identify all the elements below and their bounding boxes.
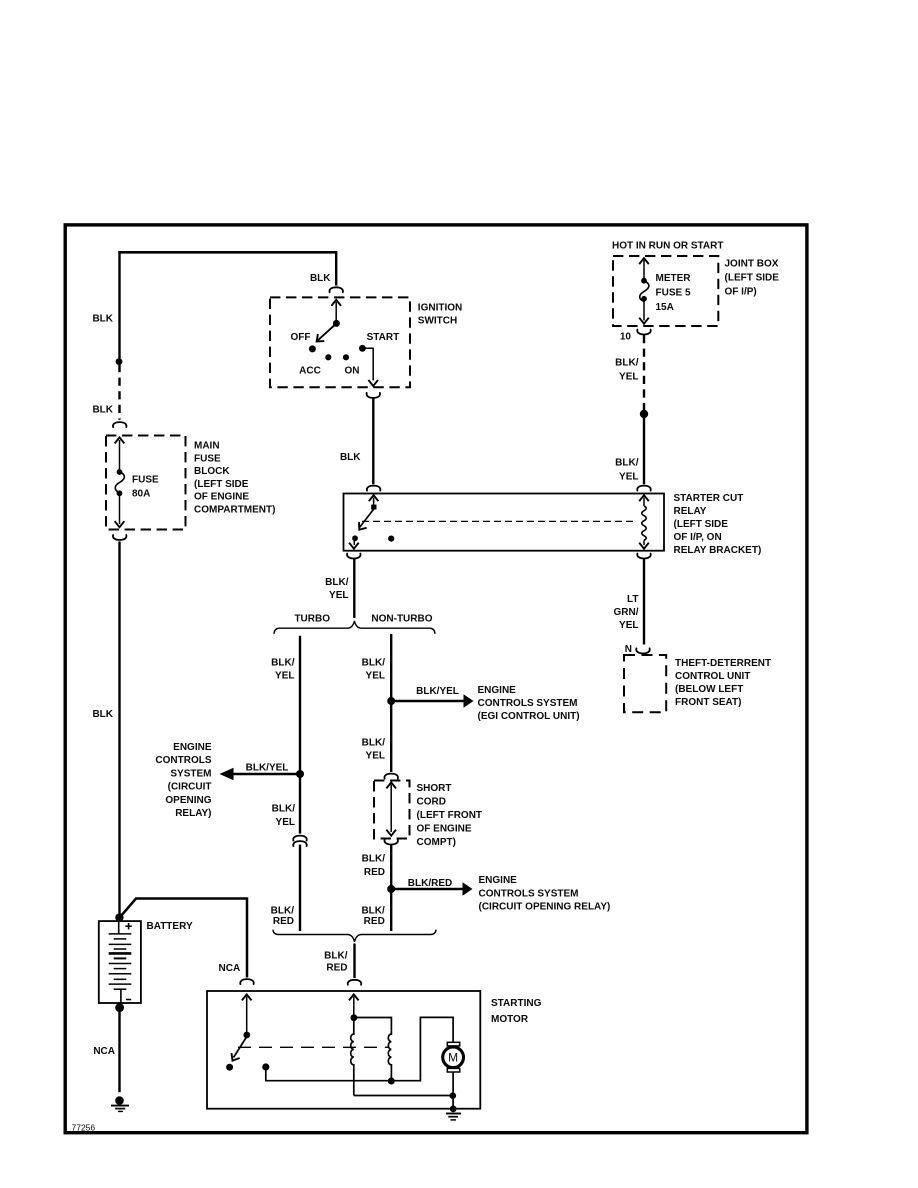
main fuse block box	[106, 436, 186, 530]
joint box	[613, 256, 718, 326]
svg-text:NCA: NCA	[219, 963, 241, 974]
connector below ignition switch	[367, 393, 380, 398]
svg-text:15A: 15A	[656, 302, 674, 313]
svg-text:77256: 77256	[72, 1123, 96, 1133]
label BLK (left wire lower)	[92, 709, 113, 720]
svg-text:ACC: ACC	[299, 366, 321, 377]
svg-text:(CIRCUIT: (CIRCUIT	[168, 782, 212, 793]
svg-text:BLK/: BLK/	[271, 906, 295, 917]
solenoid hold coil	[351, 1018, 354, 1096]
wire: motor to ground	[452, 1072, 454, 1106]
contact START	[359, 345, 366, 352]
label SHORT CORD	[417, 783, 483, 848]
svg-text:SYSTEM: SYSTEM	[170, 768, 211, 779]
svg-text:NON-TURBO: NON-TURBO	[371, 614, 432, 625]
svg-text:(LEFT SIDE: (LEFT SIDE	[725, 273, 780, 284]
theft-deterrent control unit box	[624, 655, 666, 712]
solenoid switch contact 2	[262, 1063, 269, 1070]
battery box	[99, 921, 141, 1003]
pin N label	[625, 644, 632, 655]
svg-text:(LEFT SIDE: (LEFT SIDE	[194, 479, 249, 490]
svg-text:HOT IN RUN OR START: HOT IN RUN OR START	[612, 240, 723, 251]
wire: BLK/RED to starting motor	[353, 944, 355, 979]
connector above main fuse block	[113, 422, 126, 427]
svg-text:LT: LT	[627, 594, 638, 605]
label BLK/RED (below short cord)	[362, 854, 386, 879]
wire: START contact down to relay	[362, 348, 378, 386]
label OFF	[291, 332, 311, 343]
connector above relay left pin	[367, 486, 380, 491]
svg-text:COMPARTMENT): COMPARTMENT)	[194, 505, 275, 516]
svg-text:(CIRCUIT OPENING RELAY): (CIRCUIT OPENING RELAY)	[479, 902, 611, 913]
svg-text:CONTROLS: CONTROLS	[155, 755, 211, 766]
svg-text:RED: RED	[364, 916, 385, 927]
wire: battery positive to top horizontal BLK feed	[118, 251, 337, 915]
svg-text:RELAY: RELAY	[674, 506, 707, 517]
svg-text:RELAY): RELAY)	[175, 808, 211, 819]
svg-text:CONTROL UNIT: CONTROL UNIT	[675, 671, 750, 682]
node: splice to circuit opening relay (BLK/RED)	[387, 885, 395, 893]
svg-text:YEL: YEL	[619, 620, 638, 631]
connector below relay right pin	[637, 554, 650, 559]
svg-text:BLK/: BLK/	[362, 854, 386, 865]
label ON	[345, 366, 360, 377]
relay coil pin	[639, 495, 649, 549]
wire: non-turbo branch to short cord	[390, 701, 392, 772]
svg-text:80A: 80A	[132, 489, 150, 500]
svg-text:YEL: YEL	[276, 817, 295, 828]
wire: relay output BLK/YEL down to split	[353, 559, 355, 618]
label BLK/RED (arrow)	[408, 878, 452, 889]
svg-text:OF I/P): OF I/P)	[725, 287, 757, 298]
svg-text:CORD: CORD	[417, 797, 446, 808]
svg-text:OF I/P, ON: OF I/P, ON	[674, 532, 722, 543]
node: battery positive junction	[115, 913, 123, 921]
svg-text:STARTER CUT: STARTER CUT	[674, 493, 744, 504]
label THEFT-DETERRENT CONTROL UNIT	[675, 658, 771, 708]
ignition switch blade (OFF position)	[309, 320, 340, 353]
motor M1	[443, 1042, 464, 1072]
svg-text:GRN/: GRN/	[614, 607, 639, 618]
label ENGINE CONTROLS SYSTEM (CIRCUIT OPENING RELAY) right	[479, 875, 611, 913]
node: splice to circuit opening relay feed	[296, 770, 304, 778]
connector at theft-deterrent unit	[636, 648, 649, 653]
svg-text:YEL: YEL	[366, 751, 385, 762]
label IGNITION SWITCH	[418, 302, 462, 326]
svg-text:(LEFT SIDE: (LEFT SIDE	[674, 519, 729, 530]
label START	[367, 332, 400, 343]
wire: dashed BLK/YEL from joint box	[643, 335, 645, 411]
svg-text:CONTROLS SYSTEM: CONTROLS SYSTEM	[478, 698, 578, 709]
label NCA (battery ground)	[93, 1046, 115, 1057]
svg-text:RELAY BRACKET): RELAY BRACKET)	[674, 545, 762, 556]
svg-text:YEL: YEL	[619, 372, 638, 383]
pin 10 label	[620, 332, 632, 343]
connector at starting motor BLK/RED pin	[348, 980, 361, 985]
label NON-TURBO	[371, 614, 432, 625]
ground (starting motor)	[446, 1106, 461, 1120]
solenoid switch pin (NCA)	[242, 994, 252, 1032]
short cord box	[374, 781, 410, 839]
contact ACC	[325, 354, 331, 360]
label BLK above ignition switch	[310, 273, 331, 284]
svg-text:RED: RED	[364, 867, 385, 878]
label BLK/YEL (EGI arrow)	[416, 686, 459, 697]
svg-text:(EGI CONTROL UNIT): (EGI CONTROL UNIT)	[478, 711, 580, 722]
svg-text:RED: RED	[273, 916, 294, 927]
svg-text:BLK/YEL: BLK/YEL	[246, 763, 289, 774]
svg-text:BLOCK: BLOCK	[194, 466, 230, 477]
node: splice on left BLK wire	[116, 358, 123, 365]
label STARTER CUT RELAY	[674, 493, 762, 556]
svg-text:BLK/RED: BLK/RED	[408, 878, 452, 889]
svg-text:COMPT): COMPT)	[417, 837, 456, 848]
label FUSE 80A	[132, 475, 159, 500]
label BLK/RED (non-turbo bottom)	[361, 906, 385, 928]
starter cut relay box	[344, 494, 665, 551]
label BLK/RED (to motor)	[324, 951, 348, 974]
label BLK/YEL (non-turbo upper)	[362, 658, 386, 682]
label BLK/YEL (relay output)	[325, 577, 349, 601]
svg-text:BLK: BLK	[310, 273, 331, 284]
node: splice to EGI control unit feed	[387, 697, 395, 705]
svg-text:NCA: NCA	[93, 1046, 115, 1057]
node: splice on BLK/YEL wire	[640, 410, 648, 418]
label BLK (ignition to relay)	[340, 452, 361, 463]
svg-text:BLK/: BLK/	[325, 577, 349, 588]
wire: NCA battery negative to ground	[118, 1008, 120, 1092]
svg-text:FUSE 5: FUSE 5	[656, 288, 691, 299]
label BLK/YEL (upper right)	[615, 358, 639, 383]
connector above relay right pin	[637, 486, 650, 491]
svg-text:ENGINE: ENGINE	[479, 875, 518, 886]
relay switch armature	[352, 505, 376, 542]
label BLK (left wire upper)	[92, 314, 113, 325]
svg-text:BLK/: BLK/	[362, 738, 386, 749]
svg-text:BLK/: BLK/	[361, 906, 385, 917]
svg-text:N: N	[625, 644, 632, 655]
wire: ignition to starter cut relay BLK	[372, 399, 374, 485]
relay switch pin (top)	[369, 495, 379, 505]
solenoid feed pin (BLK/RED)	[349, 994, 359, 1016]
solenoid pull-in coil	[388, 1030, 391, 1079]
node: battery negative junction	[115, 1003, 124, 1012]
connector above short cord	[384, 774, 397, 779]
svg-text:OPENING: OPENING	[165, 795, 211, 806]
node: motor bottom junction	[450, 1092, 457, 1099]
wire: jumper to pull-in coil	[354, 1018, 392, 1031]
svg-text:THEFT-DETERRENT: THEFT-DETERRENT	[675, 658, 771, 669]
svg-text:JOINT BOX: JOINT BOX	[725, 259, 779, 270]
meter fuse 5 element	[639, 258, 649, 324]
label HOT IN RUN OR START	[612, 240, 723, 251]
wire: BLK/YEL to starter cut relay	[643, 414, 645, 484]
svg-text:ENGINE: ENGINE	[478, 685, 517, 696]
svg-text:(BELOW LEFT: (BELOW LEFT	[675, 684, 743, 695]
label ENGINE CONTROLS SYSTEM (EGI CONTROL UNIT)	[478, 685, 580, 722]
svg-text:BLK/: BLK/	[615, 358, 639, 369]
svg-text:SHORT: SHORT	[417, 783, 452, 794]
node inside relay	[388, 536, 394, 542]
label BATTERY	[147, 921, 193, 932]
svg-text:CONTROLS SYSTEM: CONTROLS SYSTEM	[479, 888, 579, 899]
svg-text:BLK: BLK	[92, 709, 113, 720]
connector below relay left pin	[347, 554, 360, 559]
svg-text:BLK/: BLK/	[362, 658, 386, 669]
svg-text:BLK: BLK	[92, 405, 113, 416]
svg-text:YEL: YEL	[366, 671, 385, 682]
svg-text:BLK: BLK	[340, 452, 361, 463]
svg-text:START: START	[367, 332, 400, 343]
label JOINT BOX	[725, 259, 780, 298]
svg-text:FRONT SEAT): FRONT SEAT)	[675, 697, 741, 708]
svg-text:BLK/: BLK/	[271, 658, 295, 669]
label METER FUSE 5 15A	[656, 273, 692, 313]
wire: LT GRN/YEL relay to theft-deterrent unit	[643, 559, 645, 645]
wire: contact 2 to motor feed	[266, 1017, 453, 1080]
svg-text:YEL: YEL	[329, 590, 348, 601]
fuse 80A element	[115, 437, 125, 527]
wire: NON-TURBO branch upper BLK/YEL	[390, 634, 392, 700]
svg-text:BLK/: BLK/	[324, 951, 348, 962]
battery cell plates	[109, 934, 132, 989]
label BLK/YEL (turbo branch)	[271, 658, 295, 682]
label BLK/YEL (to short cord)	[362, 738, 386, 762]
svg-text:OFF: OFF	[291, 332, 311, 343]
connector at starting motor NCA pin	[240, 979, 253, 984]
svg-text:OF ENGINE: OF ENGINE	[194, 492, 249, 503]
svg-text:FUSE: FUSE	[132, 475, 159, 486]
ignition switch pole arrow	[331, 300, 341, 321]
label LT GRN/YEL	[614, 594, 639, 631]
svg-text:YEL: YEL	[275, 671, 294, 682]
svg-text:YEL: YEL	[619, 472, 638, 483]
svg-text:BLK/: BLK/	[272, 804, 296, 815]
node: solenoid coil feed	[351, 1014, 358, 1021]
label ACC	[299, 366, 321, 377]
svg-text:RED: RED	[326, 963, 347, 974]
relay internal dashed linkage	[362, 520, 635, 522]
label BLK/YEL (to relay)	[615, 458, 639, 483]
label BLK/RED (turbo branch bottom)	[271, 906, 295, 928]
svg-text:M: M	[448, 1051, 458, 1065]
starting motor box	[207, 991, 480, 1109]
label BLK/YEL (turbo branch lower)	[272, 804, 296, 829]
brace: turbo/non-turbo split	[274, 621, 435, 634]
label BLK (left wire at fuse block)	[92, 405, 113, 416]
inline connector on turbo branch	[291, 834, 309, 847]
solenoid switch armature	[226, 1032, 250, 1071]
svg-text:MOTOR: MOTOR	[491, 1014, 529, 1025]
svg-text:BATTERY: BATTERY	[147, 921, 193, 932]
node: pull-in coil to contact wire	[388, 1078, 395, 1085]
label NCA (to motor)	[219, 963, 241, 974]
svg-text:METER: METER	[656, 273, 692, 284]
svg-text:(LEFT FRONT: (LEFT FRONT	[417, 810, 483, 821]
wire: BLK/RED from short cord	[390, 845, 392, 931]
battery minus terminal	[121, 989, 131, 1005]
svg-text:OF ENGINE: OF ENGINE	[417, 824, 472, 835]
dashed linkage solenoid	[238, 1046, 388, 1048]
svg-text:10: 10	[620, 332, 632, 343]
wire: TURBO branch BLK/YEL	[299, 636, 301, 931]
connector below main fuse block	[113, 535, 126, 540]
wire arrow to engine controls system (circuit opening relay)	[220, 768, 301, 781]
brace: branches merge to starting motor	[273, 930, 436, 942]
svg-text:BLK/: BLK/	[615, 458, 639, 469]
short cord element arrows	[386, 782, 396, 835]
connector above ignition switch	[329, 287, 342, 292]
ground (battery)	[111, 1096, 129, 1111]
svg-text:BLK: BLK	[92, 314, 113, 325]
label BLK/YEL (arrow)	[246, 763, 289, 774]
label STARTING MOTOR	[491, 998, 542, 1025]
svg-text:FUSE: FUSE	[194, 453, 221, 464]
svg-text:IGNITION: IGNITION	[418, 302, 462, 313]
svg-text:MAIN: MAIN	[194, 441, 220, 452]
wire arrow to engine controls system (EGI control unit)	[391, 694, 473, 708]
connector below short cord	[384, 840, 397, 845]
wire: NCA battery to starting motor	[121, 899, 248, 978]
label ENGINE CONTROLS SYSTEM (CIRCUIT OPENING RELAY) left	[155, 742, 211, 819]
svg-text:SWITCH: SWITCH	[418, 315, 457, 326]
svg-text:STARTING: STARTING	[491, 998, 542, 1009]
figure number 77256	[72, 1123, 96, 1133]
ignition switch box	[270, 297, 410, 387]
svg-text:ENGINE: ENGINE	[173, 742, 212, 753]
wire: dashed BLK segment into main fuse block	[118, 364, 120, 420]
label MAIN FUSE BLOCK	[194, 441, 275, 516]
relay switch pin (bottom)	[349, 540, 359, 549]
border frame	[65, 225, 807, 1133]
wire: hold coil to motor bottom	[354, 1095, 453, 1097]
connector below joint box (pin 10)	[637, 330, 650, 335]
svg-text:TURBO: TURBO	[294, 614, 330, 625]
svg-text:BLK/YEL: BLK/YEL	[416, 686, 459, 697]
svg-text:ON: ON	[345, 366, 360, 377]
label TURBO	[294, 614, 330, 625]
contact ON	[343, 354, 349, 360]
battery plus terminal	[119, 917, 132, 934]
wire arrow to engine controls system (circuit opening relay) right	[391, 882, 472, 896]
